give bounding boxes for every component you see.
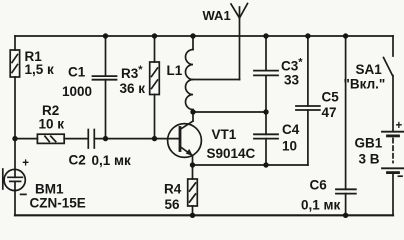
svg-text:R4: R4 — [164, 182, 182, 197]
battery GB1 — [382, 132, 404, 216]
svg-text:10: 10 — [282, 139, 297, 154]
svg-text:C6: C6 — [310, 178, 328, 193]
inductor L1 — [186, 36, 193, 112]
battery minus sign — [398, 175, 402, 177]
node dot C6 bottom — [343, 213, 348, 218]
capacitor C1 — [93, 36, 117, 139]
svg-text:BM1: BM1 — [35, 182, 64, 197]
svg-text:C5: C5 — [322, 90, 340, 105]
svg-text:C1: C1 — [68, 65, 86, 80]
node dot top C1 — [103, 33, 108, 38]
svg-text:L1: L1 — [167, 63, 183, 78]
svg-text:10 к: 10 к — [39, 117, 65, 132]
svg-text:0,1 мк: 0,1 мк — [301, 198, 341, 213]
svg-text:36 к: 36 к — [120, 81, 146, 96]
node dot R4 bottom — [190, 213, 195, 218]
resistor R4 — [188, 165, 198, 215]
node dot C1 base — [103, 136, 108, 141]
wire left rail lower — [14, 191, 16, 216]
switch SA1 — [384, 36, 394, 131]
svg-text:+: + — [396, 120, 403, 132]
svg-text:3 В: 3 В — [359, 152, 380, 167]
capacitor C4 — [254, 112, 278, 165]
microphone minus sign — [21, 193, 26, 195]
transistor VT1 — [168, 112, 202, 165]
wire top rail — [15, 35, 393, 37]
svg-text:VT1: VT1 — [212, 127, 237, 142]
antenna WA1 — [193, 4, 248, 80]
transistor emitter arrow — [186, 149, 193, 156]
svg-text:C4: C4 — [282, 122, 300, 137]
svg-text:1000: 1000 — [62, 84, 92, 99]
microphone BM1 — [3, 169, 26, 191]
node dot C3 C4 — [263, 109, 268, 114]
wire base line left — [15, 138, 37, 140]
node dot top L1 — [190, 33, 195, 38]
node dot top C3 — [263, 33, 268, 38]
node dot top R3 — [152, 33, 157, 38]
svg-text:WA1: WA1 — [203, 8, 231, 23]
capacitor C2 — [88, 130, 94, 149]
svg-text:+: + — [22, 158, 29, 170]
svg-text:47: 47 — [322, 105, 337, 120]
node dot collector L1 — [190, 109, 195, 114]
capacitor C3 — [254, 36, 278, 112]
node dot emitter — [190, 162, 195, 167]
node dot top C5 — [305, 33, 310, 38]
node dot R3 base — [152, 136, 157, 141]
wire left rail mid — [14, 77, 16, 170]
node dot top C6 — [343, 33, 348, 38]
svg-text:56: 56 — [165, 197, 181, 212]
wire R2 to C2 — [64, 138, 87, 140]
svg-text:S9014C: S9014C — [207, 146, 256, 161]
svg-text:C2: C2 — [69, 153, 86, 168]
wire bottom rail — [15, 214, 393, 216]
wire left rail upper — [14, 36, 16, 50]
node dot C4 bottom — [263, 162, 268, 167]
resistor R3 — [150, 36, 160, 139]
svg-text:CZN-15E: CZN-15E — [30, 196, 86, 211]
svg-text:33: 33 — [284, 73, 300, 88]
svg-text:SA1: SA1 — [356, 62, 383, 77]
node dot base left rail — [12, 136, 17, 141]
wire C2 to base — [94, 138, 180, 140]
svg-text:GB1: GB1 — [355, 136, 383, 151]
resistor R1 — [10, 50, 19, 77]
svg-text:1,5 к: 1,5 к — [25, 62, 55, 77]
wire emitter line — [193, 164, 308, 166]
svg-text:"Вкл.": "Вкл." — [344, 77, 386, 92]
capacitor C6 — [336, 36, 356, 215]
resistor R2 — [37, 134, 64, 143]
capacitor C5 — [296, 36, 320, 165]
svg-text:0,1 мк: 0,1 мк — [92, 153, 132, 168]
wire collector node — [193, 111, 266, 113]
